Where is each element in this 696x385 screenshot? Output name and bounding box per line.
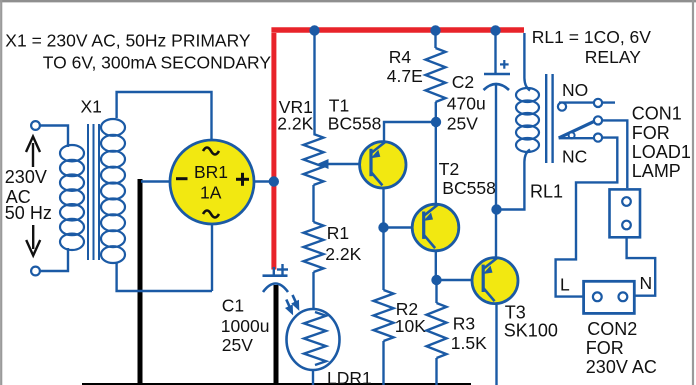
transformer X1 core <box>88 124 99 260</box>
svg-text:BC558: BC558 <box>442 178 496 198</box>
wire: BR1 plus lead <box>253 180 272 182</box>
text: 230V AC 50 Hz <box>5 167 52 223</box>
svg-text:NC: NC <box>562 147 587 167</box>
svg-text:SK100: SK100 <box>504 321 558 341</box>
svg-text:1000u: 1000u <box>221 316 270 336</box>
node BR1 +/rail <box>269 176 279 186</box>
label CON2 FOR 230V AC <box>586 319 657 377</box>
wire: rail to C2 <box>494 33 496 73</box>
wire: R4 to T2 emitter <box>435 102 437 205</box>
svg-text:RL1: RL1 <box>530 182 563 202</box>
wire: T3 collector bottom <box>495 304 497 385</box>
svg-text:R4: R4 <box>389 47 412 67</box>
label VR1 2.2K <box>277 97 313 134</box>
wire: bottom ground rail (cropped, black) <box>82 383 471 385</box>
relay common contact and wire to CON1 <box>594 116 627 188</box>
wire: T2 collector node to T3 base <box>437 279 474 281</box>
wire: T1 emitter to R4 node <box>384 122 436 143</box>
svg-text:X1: X1 <box>81 97 102 117</box>
wire: BR1 minus lead <box>141 180 170 182</box>
svg-text:1A: 1A <box>200 183 222 203</box>
node C2/relay/T3 emitter <box>491 204 501 214</box>
LDR LDR1 <box>287 309 340 370</box>
svg-text:T1: T1 <box>329 96 349 116</box>
wire: T2 collector down to node <box>435 251 437 280</box>
wire: node to R3 <box>435 280 437 303</box>
transformer X1 secondary winding <box>101 119 125 263</box>
label C2 470u 25V <box>447 72 486 134</box>
label R1 2.2K <box>325 223 361 264</box>
svg-text:LOAD1: LOAD1 <box>632 142 691 162</box>
svg-text:470u: 470u <box>447 94 486 114</box>
wire: AC top terminal to primary <box>40 126 68 148</box>
transistor T2 BC558 <box>412 204 459 251</box>
bridge rectifier BR1 1A <box>170 140 254 224</box>
wire: R1 to LDR1 <box>312 272 314 310</box>
svg-text:R3: R3 <box>453 314 475 334</box>
node rail/R4 <box>430 25 440 35</box>
wire: rail to relay coil <box>524 33 530 91</box>
svg-text:CON1: CON1 <box>632 104 682 124</box>
svg-text:CON2: CON2 <box>587 319 637 339</box>
AC source arrow down <box>26 225 40 256</box>
wire: T1 collector down to node <box>382 189 384 228</box>
svg-text:R1: R1 <box>327 223 349 243</box>
svg-text:2.2K: 2.2K <box>277 114 313 134</box>
AC source arrow up <box>26 137 40 168</box>
wire: relay coil bottom to node <box>497 150 531 210</box>
svg-text:RELAY: RELAY <box>585 47 641 67</box>
svg-text:25V: 25V <box>447 114 478 134</box>
svg-text:L: L <box>560 275 570 295</box>
svg-text:RL1 = 1CO, 6V: RL1 = 1CO, 6V <box>532 27 651 47</box>
label C1 1000u 25V <box>221 296 270 356</box>
svg-text:10K: 10K <box>395 316 426 336</box>
svg-text:T3: T3 <box>505 303 526 323</box>
LDR1 light arrows <box>286 295 298 313</box>
capacitor C1 <box>263 276 289 292</box>
svg-text:FOR: FOR <box>632 123 670 143</box>
svg-text:LDR1: LDR1 <box>327 368 372 385</box>
wire: BR1 bottom AC lead <box>211 223 213 291</box>
resistor R1 2.2K <box>304 222 324 272</box>
node R4/T1/T2 emitters <box>431 117 441 127</box>
wire: NC to pole/L run <box>556 138 618 297</box>
wire: secondary top to BR1 AC input <box>117 92 212 141</box>
connector CON1 <box>610 189 641 237</box>
svg-text:230V AC: 230V AC <box>586 357 657 377</box>
svg-text:LAMP: LAMP <box>632 161 681 181</box>
note: RL1 relay spec text <box>532 27 651 67</box>
wire: T1 collector to T2 base <box>384 226 414 228</box>
AC input terminal bottom <box>31 267 40 276</box>
wire: R2 bottom <box>382 341 384 385</box>
wire: CON1 to CON2 N <box>627 237 656 295</box>
wire: VR1 to R1 <box>312 185 314 222</box>
svg-text:230V: 230V <box>5 167 47 187</box>
svg-text:C2: C2 <box>452 72 474 92</box>
relay coil RL1 <box>516 88 539 152</box>
resistor R2 10K <box>374 290 394 341</box>
relay NC contact <box>559 134 602 142</box>
node T2 collector/T3 base/R3 <box>431 275 441 285</box>
relay pole arm <box>559 121 595 138</box>
note: X1 winding spec text <box>5 31 271 73</box>
transistor T3 SK100 <box>472 258 518 304</box>
svg-text:2.2K: 2.2K <box>325 244 361 264</box>
AC input terminal top <box>31 121 40 130</box>
wire: node to R2 <box>382 228 384 291</box>
transformer X1 primary winding <box>60 145 84 250</box>
relay core <box>546 74 552 163</box>
label T2 BC558 <box>439 159 496 198</box>
svg-text:NO: NO <box>562 80 588 100</box>
resistor R4 4.7E <box>426 48 446 102</box>
VR1 wiper arrow to T1 base <box>317 159 360 169</box>
capacitor C1 polarity + <box>277 264 288 275</box>
capacitor C2 <box>484 74 511 90</box>
svg-text:25V: 25V <box>222 335 253 355</box>
wire: rail to R4 <box>434 33 436 48</box>
wire: R3 bottom <box>435 358 437 385</box>
connector CON2 <box>584 281 635 313</box>
label R2 10K <box>395 299 426 336</box>
label T1 BC558 <box>328 96 382 134</box>
label R3 1.5K <box>451 314 487 354</box>
wire: secondary bottom to BR1 AC input <box>117 262 212 291</box>
svg-text:X1 = 230V AC, 50Hz PRIMARY: X1 = 230V AC, 50Hz PRIMARY <box>5 31 251 51</box>
node rail/C2 <box>490 25 500 35</box>
node rail/VR1 <box>309 25 319 35</box>
svg-text:BC558: BC558 <box>328 114 382 134</box>
wire: BR1 negative lead (black) <box>138 179 143 385</box>
transistor T1 BC558 <box>360 142 406 188</box>
wire: LDR1 bottom <box>312 369 314 385</box>
wire: C2 minus / node to T3 emitter <box>495 84 497 259</box>
node T1 collector/T2 base/R2 <box>378 222 388 232</box>
resistor R3 1.5K <box>427 303 447 358</box>
label CON1 FOR LOAD1 LAMP <box>632 104 691 182</box>
wire: C1 negative lead (black) <box>274 285 279 385</box>
svg-text:T2: T2 <box>439 159 459 179</box>
svg-text:4.7E: 4.7E <box>387 66 423 86</box>
svg-text:FOR: FOR <box>586 338 624 358</box>
svg-text:TO 6V, 300mA SECONDARY: TO 6V, 300mA SECONDARY <box>43 53 272 73</box>
svg-text:BR1: BR1 <box>194 162 228 182</box>
svg-text:N: N <box>640 273 653 293</box>
wire: positive rail from BR1 + (red) <box>271 30 524 270</box>
potentiometer VR1 2.2K <box>304 134 324 185</box>
wire: AC bottom terminal to primary <box>40 248 68 271</box>
wire: red rail end to C1 plate <box>273 267 275 276</box>
svg-text:1.5K: 1.5K <box>451 333 487 353</box>
svg-text:50 Hz: 50 Hz <box>5 203 52 223</box>
capacitor C2 polarity + <box>500 60 509 69</box>
label T3 SK100 <box>504 303 558 341</box>
label R4 4.7E <box>387 47 423 86</box>
relay NO contact stub <box>558 99 615 111</box>
svg-text:C1: C1 <box>222 296 244 316</box>
wire: rail to VR1 <box>313 33 315 134</box>
